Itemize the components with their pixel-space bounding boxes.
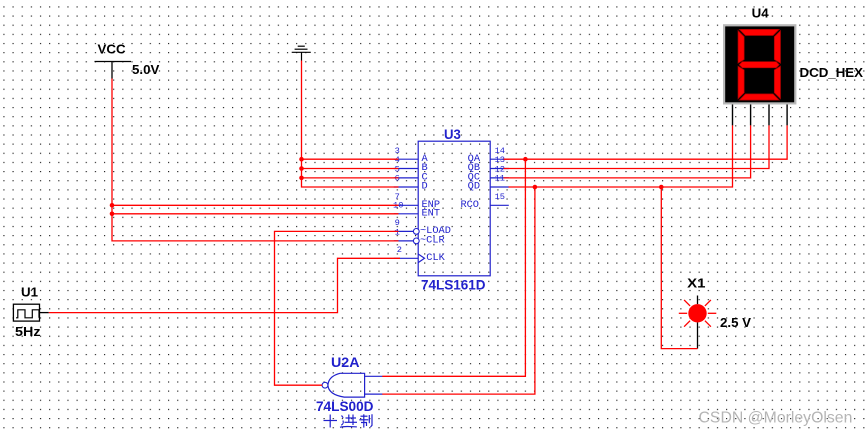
svg-text:CSDN @MorleyOlsen: CSDN @MorleyOlsen xyxy=(699,410,853,427)
svg-text:6: 6 xyxy=(395,174,400,184)
svg-text:ENT: ENT xyxy=(422,208,441,220)
svg-text:9: 9 xyxy=(395,218,400,228)
svg-text:D: D xyxy=(422,181,428,193)
svg-text:U3: U3 xyxy=(444,127,461,142)
svg-text:QD: QD xyxy=(468,181,480,193)
svg-text:VCC: VCC xyxy=(98,42,126,57)
svg-text:11: 11 xyxy=(495,174,505,184)
svg-text:1: 1 xyxy=(395,228,400,238)
svg-text:74LS161D: 74LS161D xyxy=(421,278,486,293)
svg-text:DCD_HEX: DCD_HEX xyxy=(800,65,864,80)
svg-text:15: 15 xyxy=(495,192,505,202)
svg-text:5Hz: 5Hz xyxy=(15,324,41,339)
svg-text:U2A: U2A xyxy=(331,355,360,370)
svg-text:CLK: CLK xyxy=(426,252,445,264)
svg-text:5.0V: 5.0V xyxy=(132,62,159,77)
svg-text:U1: U1 xyxy=(21,284,39,299)
svg-text:74LS00D: 74LS00D xyxy=(316,399,374,414)
svg-text:2: 2 xyxy=(397,245,402,255)
svg-text:X1: X1 xyxy=(687,275,706,290)
svg-text:U4: U4 xyxy=(752,5,770,20)
svg-text:~CLR: ~CLR xyxy=(420,235,445,247)
svg-text:2.5 V: 2.5 V xyxy=(720,315,751,330)
svg-text:RCO: RCO xyxy=(460,199,479,211)
